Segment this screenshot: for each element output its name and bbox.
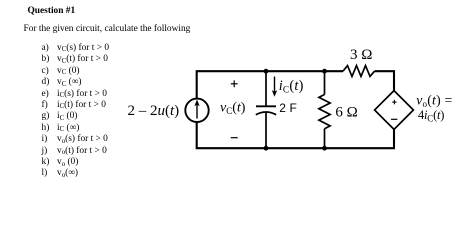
list item d (42, 78, 82, 87)
capacitor C1 top plate (256, 105, 276, 107)
wire bottom rail and left rail lower segment (197, 122, 394, 148)
svg-text:vC(t): vC(t) (220, 101, 246, 116)
capacitor C1 bottom curved plate (256, 112, 276, 115)
intro line (24, 25, 191, 34)
junction node dot (cap, bottom) (264, 146, 269, 151)
current source I1 circle (185, 99, 208, 122)
svg-text:iC(t): iC(t) (279, 78, 304, 95)
junction node dot (6-ohm, bottom) (322, 146, 327, 151)
resistor R2 (6 ohm) bottom lead (324, 129, 326, 149)
svg-text:3 Ω: 3 Ω (350, 47, 372, 63)
resistor R1 (3 ohm) zigzag (343, 66, 375, 77)
list item l (42, 169, 79, 178)
wire top rail right segment (3-ohm to dependent source) (375, 71, 395, 91)
list item c (42, 67, 80, 76)
svg-text:vo(t) =: vo(t) = (416, 92, 452, 108)
resistor R2 (6 ohm) zigzag (319, 95, 330, 129)
junction node dot (cap, top) (264, 69, 269, 74)
svg-text:4iC(t): 4iC(t) (418, 108, 444, 123)
svg-text:2 – 2u(t): 2 – 2u(t) (128, 103, 180, 119)
capacitor voltage + sign (231, 80, 238, 87)
list item h (42, 124, 80, 133)
capacitor voltage - sign (231, 137, 238, 139)
list item g (42, 112, 78, 121)
list item e (42, 90, 107, 99)
dependent source + sign (392, 100, 396, 104)
capacitor C1 bottom lead wire (265, 113, 267, 149)
title (28, 7, 76, 16)
current source I1 arrow (up) (194, 100, 199, 119)
list item a (42, 44, 110, 53)
resistor R2 (6 ohm) top lead (324, 71, 326, 95)
list item j (42, 147, 107, 156)
current arrow i_C(t) (down) (272, 77, 277, 97)
junction node dot (6-ohm, top) (322, 69, 327, 74)
list item k (42, 158, 79, 167)
wire top rail (left node to 3-ohm) and left rail upper segment (197, 71, 343, 98)
list item i (42, 135, 108, 144)
list item b (42, 55, 108, 64)
svg-text:2 F: 2 F (279, 101, 297, 115)
dependent source - sign (391, 118, 397, 120)
svg-text:6 Ω: 6 Ω (335, 105, 357, 121)
capacitor C1 top lead wire (265, 71, 267, 107)
list item f (42, 101, 106, 110)
dependent source U1 diamond (375, 91, 414, 130)
